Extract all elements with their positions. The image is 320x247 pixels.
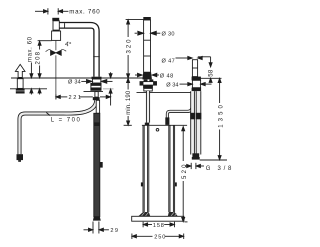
riser seam <box>93 56 99 58</box>
column base <box>142 72 152 79</box>
svg-text:Ø 47: Ø 47 <box>162 59 175 65</box>
base dark ring <box>90 83 101 85</box>
svg-text:min. 190: min. 190 <box>126 90 132 115</box>
dim max.60 <box>28 36 34 94</box>
counter bottom line right diagram <box>137 91 192 93</box>
sbox side foot <box>93 217 101 221</box>
svg-text:Ø 34: Ø 34 <box>166 83 178 89</box>
base white band <box>91 85 101 88</box>
dim G 3/8 <box>185 163 232 172</box>
handle shank white <box>192 80 200 87</box>
head holder <box>52 31 61 40</box>
dim 520 <box>182 127 188 222</box>
dim 221 <box>56 95 111 102</box>
spout arm outer edge <box>59 23 99 77</box>
dim between counter lines at x=110.6 <box>109 72 112 105</box>
sbox feet <box>138 212 178 216</box>
svg-text:221: 221 <box>69 95 82 101</box>
right column nut <box>143 85 153 88</box>
dim 158 <box>143 222 174 229</box>
dimension max.760 <box>35 8 100 16</box>
handle nut <box>192 88 202 92</box>
svg-text:320: 320 <box>126 39 132 54</box>
sbox side view tube <box>96 100 99 113</box>
handle grip <box>192 60 197 77</box>
svg-text:58: 58 <box>209 69 215 77</box>
svg-text:250: 250 <box>154 235 165 241</box>
spout arm inner edge <box>59 28 94 77</box>
hose couplings <box>190 113 195 120</box>
hose end nut <box>17 154 24 160</box>
handle ext line counter level <box>201 77 222 79</box>
thin reference line from head down <box>55 41 57 51</box>
hose connector with insert arrow <box>15 64 25 93</box>
threaded shank <box>95 92 98 98</box>
sbox screw <box>156 129 159 132</box>
dim 58 <box>198 57 215 83</box>
faint ext line right of base <box>103 88 114 90</box>
spray head body <box>53 21 59 31</box>
label L = 700 <box>46 113 80 124</box>
svg-text:max. 760: max. 760 <box>69 9 100 16</box>
dim 29 <box>84 222 119 235</box>
sbox side clip <box>100 162 103 168</box>
dim Ø34 left faucet <box>68 80 113 86</box>
base bottom blobs <box>144 79 148 81</box>
right column mounting washer <box>140 82 157 86</box>
svg-text:208: 208 <box>35 51 41 64</box>
dim 208 <box>35 41 41 94</box>
counter bottom ext line left dims <box>10 88 47 90</box>
handle collar <box>192 77 201 81</box>
svg-text:29: 29 <box>110 228 118 234</box>
sbox side clips front <box>141 182 143 186</box>
dim 320 + min190 line <box>124 20 144 126</box>
dim 250 <box>132 234 184 241</box>
counter top line left diagram <box>11 77 150 79</box>
svg-text:Ø 30: Ø 30 <box>162 32 175 38</box>
ext line holder bottom going left <box>38 40 52 42</box>
pull-out hose <box>20 100 97 154</box>
dim Ø34 handle <box>166 83 211 89</box>
base body <box>92 79 101 83</box>
svg-text:G 3/8: G 3/8 <box>206 166 232 172</box>
svg-text:max. 60: max. 60 <box>28 36 34 62</box>
svg-text:Ø 34: Ø 34 <box>68 80 81 86</box>
dim Ø30 <box>135 31 175 37</box>
dim Ø48 <box>135 73 173 79</box>
hose handle to sbox <box>167 101 192 119</box>
hose from column to sbox <box>147 91 150 123</box>
base lock nut <box>90 88 101 91</box>
sbox base plate <box>132 216 184 221</box>
sbox front top line <box>142 124 187 126</box>
4deg swivel bowtie <box>46 40 73 56</box>
svg-text:Ø 48: Ø 48 <box>160 73 173 79</box>
sbox side view bar <box>94 113 100 216</box>
1350 ext line <box>200 159 227 161</box>
column cap <box>143 17 151 20</box>
spray head cap <box>52 18 59 21</box>
hose end nuts <box>192 153 199 157</box>
sbox walls <box>142 125 144 212</box>
svg-text:158: 158 <box>153 223 164 229</box>
dim Ø47 <box>162 56 203 64</box>
base collar <box>92 77 102 79</box>
nut-bottom ext line left base <box>84 91 104 93</box>
arm seam <box>64 23 66 27</box>
dim 1350 <box>218 78 224 159</box>
handle hoses <box>191 91 194 154</box>
column body <box>144 20 151 72</box>
hose nut below <box>93 97 100 100</box>
